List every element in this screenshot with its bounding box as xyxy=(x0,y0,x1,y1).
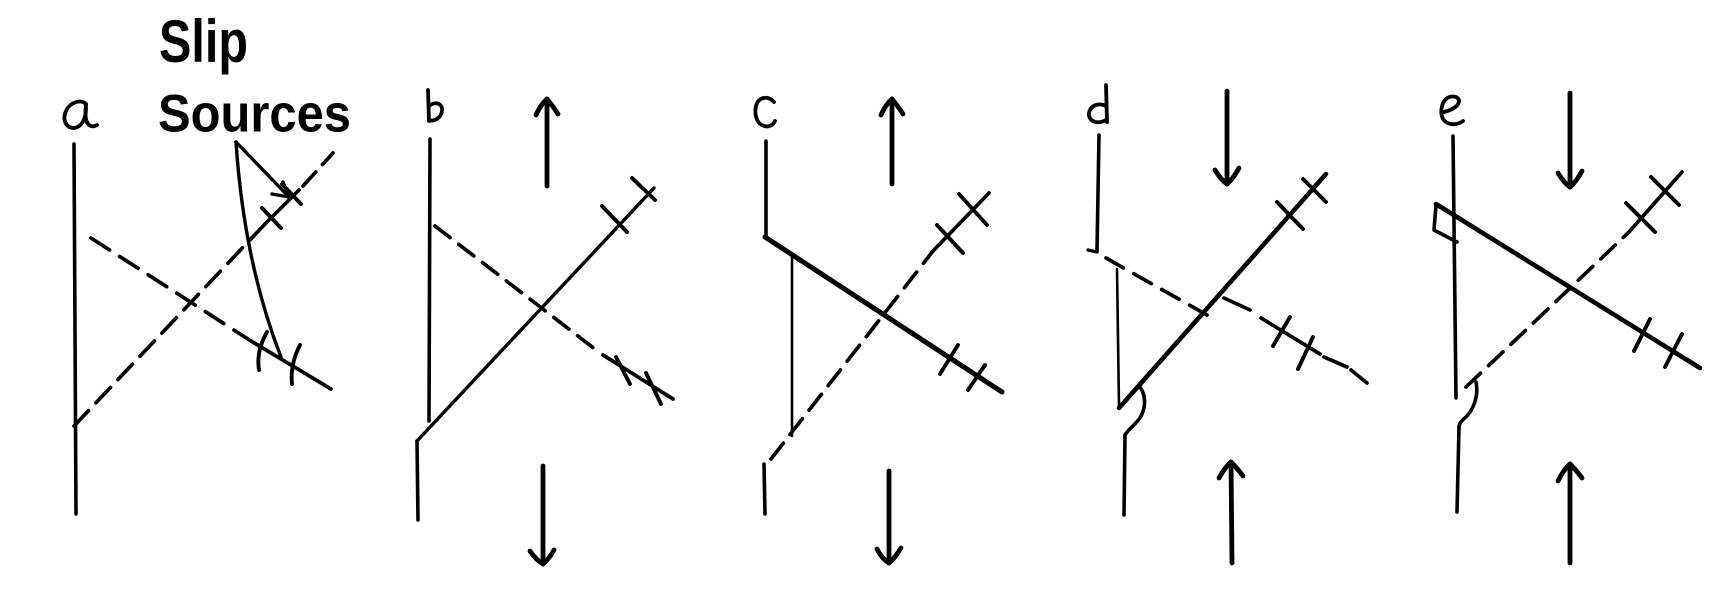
panel b: tick 1b on dashed plane xyxy=(616,357,630,384)
panel c: solid tip of ascending plane at source xyxy=(933,193,989,251)
panel a: tick 1 on ascending plane xyxy=(262,208,281,228)
panel c: tick 2 on descending line xyxy=(968,365,985,390)
panel a: tick 2 on ascending plane xyxy=(282,184,301,204)
panel c: thick solid descending slip line xyxy=(765,237,1002,392)
svg-text:Slip: Slip xyxy=(159,8,248,75)
panel a: ascending slip plane, top dashes xyxy=(303,153,333,186)
panel d: lower vertical line xyxy=(1124,435,1125,515)
panel d: up arrow xyxy=(1219,462,1243,563)
panel a: curved tick 1 on descending plane xyxy=(258,332,267,370)
panel e: solid tip of ascending plane at source xyxy=(1629,172,1682,232)
panel b: tick 1 on dashed plane xyxy=(603,355,673,399)
panel e: down arrow xyxy=(1558,93,1582,187)
panel e: tick 1 on ascending plane xyxy=(1626,203,1655,232)
panel e: surface step outline xyxy=(1434,205,1457,242)
panel b: tick 1 on ascending line xyxy=(602,206,627,232)
panel c: thin vertical (bowed segment) xyxy=(791,256,794,436)
panel d: tick 1 on dashed plane xyxy=(1273,317,1290,346)
panel d: small foot at bottom of upper vertical xyxy=(1088,250,1097,252)
label b xyxy=(428,90,442,121)
panel c: tick 2 on ascending plane xyxy=(959,194,987,225)
panel e: tick 1 on descending line xyxy=(1634,319,1650,351)
panel b: down arrow xyxy=(530,466,554,564)
panel a: descending slip plane, dashed part xyxy=(91,238,251,341)
panel e: tick 2 on descending line xyxy=(1665,334,1682,367)
panel c: lower short vertical line xyxy=(764,464,765,514)
panel b: up arrow xyxy=(536,99,558,186)
panel d: tick 2 on dashed plane xyxy=(1298,337,1313,369)
panel a: descending slip plane, solid part at source xyxy=(251,341,331,389)
panel a: curved tick 2 on descending plane xyxy=(292,345,300,384)
panel c: tick 1 on descending line xyxy=(940,345,958,374)
panel a: pointer line to lower source xyxy=(236,142,281,357)
panel e: dashed ascending slip plane xyxy=(1466,232,1629,387)
panel d: down arrow xyxy=(1215,91,1239,184)
panel e: up arrow xyxy=(1558,464,1582,563)
panel d: bow-out curve xyxy=(1125,386,1145,435)
panel b: tick 2 on ascending line xyxy=(632,178,655,200)
panel c: tick 1 on ascending plane xyxy=(937,225,963,253)
panel e: tick 2 on ascending plane xyxy=(1651,177,1679,205)
panel d: dashed slip plane, right of crossing xyxy=(1224,298,1367,383)
panel d: thin vertical (bowed segment) xyxy=(1117,269,1119,407)
panel c: down arrow xyxy=(877,471,901,563)
label a xyxy=(64,102,97,128)
label c xyxy=(755,98,775,127)
svg-text:Sources: Sources xyxy=(158,85,351,144)
panel e: thick solid descending slip line xyxy=(1436,204,1700,368)
panel a: grain-boundary vertical line xyxy=(74,144,76,514)
panel c: upper vertical line xyxy=(764,141,768,237)
panel a: ascending slip plane, dashed part xyxy=(74,224,265,426)
panel b: solid ascending slip line xyxy=(417,188,654,441)
panel c: dashed ascending slip plane xyxy=(771,251,933,459)
panel b: dashed descending slip plane xyxy=(435,226,600,353)
panel a: pointer line with arrowhead to upper source xyxy=(236,142,289,197)
title "Slip Sources" xyxy=(158,8,351,144)
panel b: upper vertical line xyxy=(429,139,430,421)
panel b: lower vertical line xyxy=(417,441,418,520)
panel e: bow-out hook xyxy=(1459,382,1477,427)
panel a: ascending slip plane, solid part at source xyxy=(265,190,299,224)
panel e: lower vertical line xyxy=(1457,427,1459,512)
panel d: dashed slip plane, left of crossing xyxy=(1106,258,1207,315)
label e xyxy=(1441,97,1463,125)
label d xyxy=(1089,85,1107,122)
panel e: vertical line (upper, through step) xyxy=(1453,136,1456,398)
panel d: tick 2 on ascending line xyxy=(1303,179,1326,202)
panel d: upper vertical line xyxy=(1097,135,1099,251)
panel c: up arrow xyxy=(881,99,903,184)
panel d: tick 1 on ascending line xyxy=(1277,202,1303,229)
panel d: thick solid ascending slip line xyxy=(1119,174,1326,408)
panel b: tick 2 on dashed plane xyxy=(646,373,661,404)
